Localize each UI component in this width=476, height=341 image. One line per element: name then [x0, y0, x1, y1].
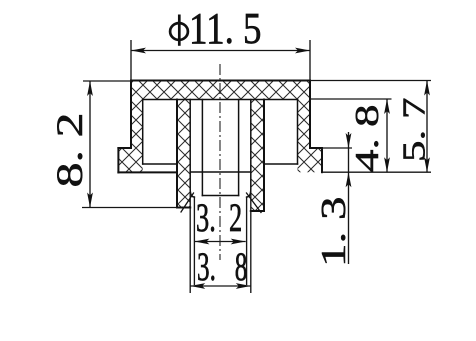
center line — [219, 64, 221, 260]
boss left bottom cap — [177, 207, 190, 209]
4.8 dimension line — [386, 99, 388, 172]
3.8 dimension line — [190, 285, 251, 287]
5.7 top extension line — [310, 80, 431, 82]
bore right wall with fillet — [247, 100, 251, 198]
svg-text:11. 5: 11. 5 — [189, 4, 262, 53]
arrow 3.8 right — [236, 283, 251, 289]
hatched right side wall — [298, 100, 311, 149]
right chamfer overshoot diagonal — [247, 193, 262, 213]
left flange top — [118, 147, 131, 149]
svg-text:3. 2: 3. 2 — [196, 197, 242, 241]
inner slot bottom — [202, 195, 238, 197]
3.2 dimension line — [194, 241, 245, 243]
hatched top band of cap — [131, 81, 310, 100]
right bottom extension line — [322, 171, 431, 173]
5.7 dimension line — [426, 81, 428, 173]
bore left wall with fillet — [190, 100, 194, 198]
hatched left side wall — [131, 100, 143, 149]
arrow 1.3 lower pointing up — [346, 172, 352, 187]
4.8 top extension line — [310, 98, 392, 100]
3.2 right extension line — [246, 197, 248, 285]
phi11.5 right extension line — [309, 40, 311, 81]
3.8 right extension line — [250, 189, 252, 293]
svg-text:3. 8: 3. 8 — [197, 245, 247, 289]
arrow 8.2 bottom — [87, 193, 93, 208]
phi11.5 left extension line — [130, 40, 132, 81]
left web top — [143, 163, 177, 165]
3.2 left extension line — [193, 197, 195, 285]
8.2 dimension line — [89, 81, 91, 208]
3.8 left extension line — [189, 189, 191, 293]
phi symbol circle — [170, 23, 188, 40]
arrow 4.8 bottom — [384, 157, 390, 172]
arrow 4.8 top — [384, 99, 390, 114]
boss left outer edge — [176, 100, 178, 208]
hatched center boss right wall — [251, 100, 264, 212]
arrow phi11.5 right — [295, 48, 310, 54]
right wall outer edge — [309, 81, 311, 149]
hatched right flange — [298, 148, 323, 172]
1.3 top extension line — [322, 147, 352, 149]
inner slot left edge — [201, 100, 203, 196]
cap ceiling line — [143, 99, 298, 101]
arrow 3.2 right — [231, 239, 246, 245]
bore step line — [190, 171, 251, 173]
right flange top — [310, 147, 322, 149]
arrow phi11.5 left — [131, 48, 146, 54]
cap top face — [131, 80, 310, 82]
hatched center boss left wall — [177, 100, 190, 208]
left chamfer overshoot diagonal — [181, 193, 194, 212]
8.2 bottom extension line — [82, 207, 177, 209]
inner slot right edge — [238, 100, 240, 196]
hatched left flange — [118, 148, 142, 172]
right wall inner edge — [297, 100, 299, 165]
left wall inner edge — [142, 100, 144, 165]
left wall outer edge — [130, 81, 132, 149]
svg-text:4. 8: 4. 8 — [349, 105, 386, 172]
arrow 3.2 left — [194, 239, 209, 245]
1.3 dimension line — [348, 132, 350, 264]
arrow 1.3 upper pointing down — [346, 133, 352, 148]
right flange outer edge — [321, 148, 323, 172]
svg-text:8. 2: 8. 2 — [49, 113, 90, 188]
arrow 5.7 top — [424, 81, 430, 96]
phi11.5 dimension line — [131, 50, 310, 52]
left bottom face — [118, 171, 177, 173]
arrow 3.8 left — [190, 283, 205, 289]
arrow 5.7 bottom — [424, 157, 430, 172]
boss right bottom cap — [251, 210, 264, 212]
boss right outer edge — [263, 100, 265, 212]
right web top — [264, 163, 298, 165]
8.2 top extension line — [83, 80, 131, 82]
left flange outer edge — [117, 148, 119, 172]
arrow 8.2 top — [87, 81, 93, 96]
phi symbol bar — [178, 15, 181, 46]
svg-text:5. 7: 5. 7 — [397, 98, 432, 162]
svg-text:1. 3: 1. 3 — [314, 197, 353, 267]
